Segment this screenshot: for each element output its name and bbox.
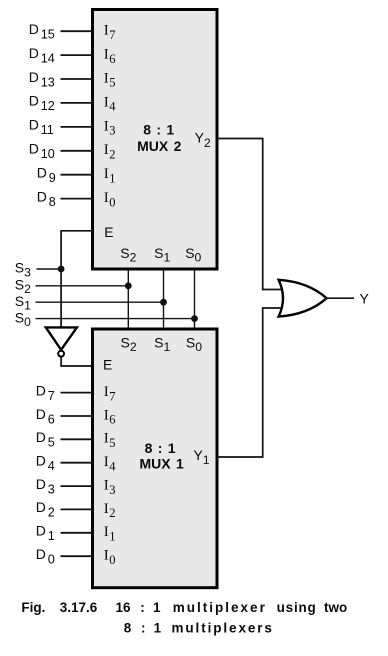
- inverter U3: [46, 327, 77, 349]
- wire D5: [61, 438, 93, 440]
- mux U1 body: [93, 329, 218, 588]
- svg-text:Fig.3.17.616:1multiplexerusing: Fig.3.17.616:1multiplexerusingtwo: [21, 600, 347, 615]
- wire D0: [61, 555, 93, 557]
- wire U2 enable to S3 node and inverter input: [61, 231, 92, 327]
- svg-text:MUX 1: MUX 1: [139, 455, 184, 471]
- or-gate U4: [279, 280, 327, 317]
- wire S1 vertical bus: [163, 270, 165, 331]
- wire Y2 to OR gate: [217, 139, 283, 290]
- mux U2 body: [93, 10, 218, 270]
- wire D14: [61, 54, 93, 56]
- wire D15: [61, 30, 93, 32]
- wire S0 row: [36, 318, 195, 320]
- wire D7: [61, 392, 93, 394]
- node S0 junction: [191, 315, 198, 322]
- wire OR output: [327, 297, 354, 299]
- svg-text:Y: Y: [360, 290, 370, 306]
- wire S3 stub: [37, 268, 62, 270]
- wire D3: [61, 485, 93, 487]
- wire D11: [61, 126, 93, 128]
- wire D9: [61, 174, 93, 176]
- node S2 junction: [125, 282, 132, 289]
- wire D1: [61, 532, 93, 534]
- wire D10: [61, 150, 93, 152]
- wire Y1 to OR gate: [217, 308, 283, 457]
- svg-text:MUX 2: MUX 2: [137, 138, 182, 154]
- wire inverter output to U1 enable: [61, 357, 92, 366]
- svg-text:8 : 1: 8 : 1: [145, 440, 176, 456]
- wire S1 row: [36, 301, 164, 303]
- wire D12: [61, 102, 93, 104]
- node S3 junction: [58, 266, 65, 273]
- wire S2 row: [36, 285, 129, 287]
- wire S0 vertical bus: [194, 270, 196, 331]
- node S1 junction: [160, 299, 167, 306]
- wire D6: [61, 415, 93, 417]
- svg-text:E: E: [104, 224, 113, 240]
- wire D2: [61, 508, 93, 510]
- wire D8: [61, 198, 93, 200]
- wire S2 vertical bus: [127, 270, 129, 331]
- wire D4: [61, 462, 93, 464]
- inverter U3 bubble: [58, 351, 64, 357]
- wire D13: [61, 78, 93, 80]
- svg-text:8 : 1: 8 : 1: [143, 121, 174, 137]
- svg-text:E: E: [103, 357, 112, 373]
